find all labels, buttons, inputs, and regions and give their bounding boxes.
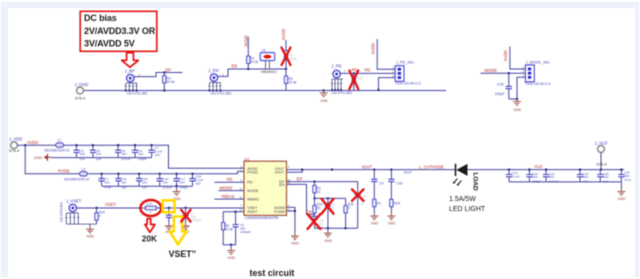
wire top ground rail <box>84 90 447 92</box>
connector J_VLD <box>595 141 608 171</box>
ground (VLD bank) <box>617 189 626 201</box>
svg-text:PD: PD <box>352 67 358 72</box>
wire AVDD to J_PD_SEL pin1 <box>377 39 395 69</box>
svg-text:100pF: 100pF <box>495 92 506 96</box>
svg-text:R30: R30 <box>146 202 152 206</box>
inductor L2 <box>64 167 89 181</box>
svg-text:16V: 16V <box>121 181 127 185</box>
resistor R25 <box>390 199 400 213</box>
svg-text:AVDD: AVDD <box>371 43 376 54</box>
capacitor C4 <box>371 170 383 200</box>
svg-text:R25: R25 <box>394 202 400 206</box>
svg-text:VSET’’: VSET’’ <box>169 249 197 259</box>
node VSET/C1b junction <box>168 207 170 209</box>
capacitor C5 <box>73 144 86 161</box>
svg-text:TSW-103-06-G-S: TSW-103-06-G-S <box>525 82 551 86</box>
capacitor C34 (not fitted) <box>355 190 367 228</box>
node gnd junction <box>516 98 518 100</box>
svg-text:GND: GND <box>34 156 43 160</box>
resistor R2 (not fitted) <box>284 40 297 69</box>
svg-text:GND: GND <box>388 222 396 226</box>
wire MODE net <box>481 72 526 74</box>
svg-text:MI1206K310R-10: MI1206K310R-10 <box>45 148 70 152</box>
svg-text:16V: 16V <box>80 152 86 156</box>
svg-text:uF: uF <box>360 201 364 205</box>
svg-text:2V/AVDD3.3V OR: 2V/AVDD3.3V OR <box>84 26 156 36</box>
capacitor C17 <box>174 173 189 190</box>
resistor R1 <box>373 199 382 213</box>
svg-text:GND: GND <box>320 99 328 103</box>
ground (C4/R1) <box>370 213 379 225</box>
svg-text:20K: 20K <box>142 234 157 244</box>
svg-text:20.0k: 20.0k <box>250 60 258 64</box>
resistor R30 (series, in red circle) <box>145 202 156 215</box>
capacitor C25 (not fitted) <box>311 215 324 230</box>
capacitor C23 (not fitted) <box>325 198 336 228</box>
svg-text:16V: 16V <box>179 181 185 185</box>
capacitor C18 <box>157 173 173 190</box>
capacitor C13 <box>506 168 520 181</box>
svg-text:RBIAS: RBIAS <box>247 198 259 202</box>
svg-text:GND: GND <box>324 239 332 243</box>
svg-text:AVDD: AVDD <box>243 35 248 46</box>
LED LOAD <box>453 164 479 191</box>
power port GND (left arrow) <box>34 154 51 161</box>
annotation yellow square <box>163 200 175 212</box>
svg-text:AVDD: AVDD <box>27 140 38 145</box>
svg-text:VLD: VLD <box>534 164 542 169</box>
connector J_PD <box>331 63 352 94</box>
svg-text:GND: GND <box>227 256 235 260</box>
connector J1 HB3902U <box>260 47 277 73</box>
node EP junction <box>163 71 165 73</box>
svg-text:IOUT: IOUT <box>275 171 285 175</box>
node C23 junction <box>327 197 329 199</box>
annotation X over C23 <box>322 199 334 214</box>
wire AVDD rail <box>17 145 244 168</box>
annotation yellow arrow (VSET) <box>170 217 187 245</box>
resistor R3 <box>247 37 259 69</box>
svg-text:16V: 16V <box>121 152 127 156</box>
svg-text:GND: GND <box>86 235 94 239</box>
svg-text:GND: GND <box>291 241 299 245</box>
svg-text:J_VDD: J_VDD <box>9 137 22 142</box>
wire AVDD bank ground bus <box>51 157 152 159</box>
capacitor C1b (to gnd, under yellow box) <box>165 208 173 234</box>
svg-text:20.0k: 20.0k <box>167 80 175 84</box>
node RSET junction <box>234 211 236 213</box>
wire J_MODE_SEL pin3 to gnd <box>509 77 526 99</box>
wire VSET net <box>77 207 245 209</box>
svg-text:10: 10 <box>317 190 321 194</box>
svg-text:0: 0 <box>99 214 101 218</box>
svg-text:20.0k: 20.0k <box>289 57 297 61</box>
capacitor C32 <box>388 170 402 200</box>
node VSET/R24 junction <box>95 207 97 209</box>
wire PD stub <box>214 181 244 183</box>
node link junction <box>313 197 315 199</box>
wire MODE stub <box>218 190 244 192</box>
svg-text:MI1206K310R-10: MI1206K310R-10 <box>64 178 89 182</box>
wire EN net to C25 <box>287 184 315 214</box>
svg-text:575-4: 575-4 <box>75 96 86 101</box>
node IOUT b <box>331 168 333 170</box>
resistor R9 <box>222 222 234 231</box>
node MODE/C30 junction <box>508 72 510 74</box>
svg-text:EN: EN <box>279 183 285 187</box>
node AGND/PGND junction <box>294 210 296 212</box>
svg-text:142-0701-851: 142-0701-851 <box>60 202 64 222</box>
resistor R10 <box>313 198 323 214</box>
svg-text:RBIAS: RBIAS <box>222 194 235 199</box>
svg-text:EP: EP <box>297 177 303 182</box>
svg-text:16V: 16V <box>163 181 169 185</box>
svg-text:10V: 10V <box>155 153 161 157</box>
wire PVDD bank ground bus <box>102 185 193 187</box>
resistor R24 <box>95 208 105 224</box>
svg-text:C30: C30 <box>497 83 504 87</box>
connector J_VDD <box>9 137 22 154</box>
capacitor C19 <box>189 173 203 186</box>
wire EP net from J_BP <box>134 73 183 77</box>
capacitor C15 <box>597 170 609 184</box>
wire EN net <box>218 69 287 76</box>
svg-text:20.0k: 20.0k <box>225 228 233 232</box>
node EP/R7 junction <box>313 180 315 182</box>
svg-text:IOUT: IOUT <box>362 164 372 169</box>
svg-text:RSET: RSET <box>247 210 258 214</box>
svg-text:16V: 16V <box>142 181 148 185</box>
svg-text:0: 0 <box>348 206 350 210</box>
svg-text:GND: GND <box>513 108 521 112</box>
node R4 rail <box>163 89 165 91</box>
svg-text:PVDD: PVDD <box>247 170 258 174</box>
wire PVDD branch <box>25 145 244 174</box>
connector J_VSET <box>60 199 97 225</box>
annotation red arrow (DC bias) <box>122 53 139 67</box>
header J_MODE_SEL <box>522 60 551 86</box>
svg-text:LOAD: LOAD <box>472 173 479 191</box>
connector J_BP <box>125 69 148 96</box>
ground (PVDD bank) <box>173 185 182 201</box>
capacitor C21 <box>115 173 127 190</box>
svg-text:EN: EN <box>232 64 238 69</box>
resistor R4 <box>163 73 175 91</box>
resistor R5 <box>284 69 297 91</box>
inductor L1 <box>45 139 70 153</box>
wire AVDD to J_MODE_SEL pin1 <box>510 47 526 70</box>
capacitor C12 <box>543 168 559 183</box>
svg-text:J_VLD: J_VLD <box>595 141 608 146</box>
wire RBIAS stub <box>214 198 244 200</box>
svg-text:L1: L1 <box>58 139 62 143</box>
wire J_PD_SEL pin3 to rail <box>379 78 396 90</box>
ground (IC right bus) <box>324 228 333 243</box>
resistor R7 <box>313 182 321 199</box>
svg-text:J_VSET: J_VSET <box>66 199 82 204</box>
node EN/R3 junction <box>247 68 249 70</box>
svg-text:GND: GND <box>371 222 379 226</box>
wire R7/C23/R22 link <box>315 197 346 199</box>
node VSET/C3 junction <box>184 207 186 209</box>
node IOUT a <box>301 168 303 170</box>
svg-text:10V: 10V <box>195 182 201 186</box>
svg-text:AVDD: AVDD <box>503 50 508 61</box>
annotation X over R23 <box>349 71 358 90</box>
svg-text:MODE: MODE <box>247 189 259 193</box>
svg-text:16V: 16V <box>96 152 102 156</box>
svg-text:20.0k: 20.0k <box>288 81 296 85</box>
capacitor C14 <box>577 168 589 183</box>
svg-text:EP: EP <box>166 67 172 72</box>
annotation red box DC bias <box>80 11 157 51</box>
capacitor C8 <box>115 144 131 161</box>
wire IOUT pin2 link <box>287 170 303 173</box>
annotation X over C25 <box>308 214 321 229</box>
node PVDD branch <box>24 144 26 146</box>
ground (top rail) <box>320 89 329 103</box>
ground (C32/R25) <box>387 213 396 225</box>
svg-text:10: 10 <box>317 206 321 210</box>
svg-text:16V: 16V <box>138 152 144 156</box>
node C4 junction <box>373 168 375 170</box>
svg-text:L2: L2 <box>82 167 86 171</box>
wire IOUT net <box>287 169 625 171</box>
node bus junctions <box>327 227 329 229</box>
annotation red arrow (20K) <box>145 219 155 233</box>
ground (C30) <box>513 99 522 112</box>
capacitor C9 <box>132 144 147 161</box>
svg-text:0.1uF: 0.1uF <box>512 175 520 179</box>
wire AGND/PGND to gnd <box>287 207 295 233</box>
svg-text:PGND: PGND <box>274 210 285 214</box>
capacitor C10 <box>618 168 631 181</box>
wire EP net <box>287 182 358 190</box>
node PD/R23 junction <box>353 72 355 74</box>
ground (J_VSET) <box>86 224 95 239</box>
svg-text:PD: PD <box>365 67 371 72</box>
capacitor C7 <box>149 144 163 158</box>
svg-text:U1: U1 <box>245 156 251 161</box>
capacitor C2 <box>233 223 251 234</box>
svg-text:LED LIGHT: LED LIGHT <box>449 206 486 213</box>
svg-text:142-0701-851: 142-0701-851 <box>331 91 352 95</box>
connector J_EN <box>208 68 231 95</box>
capacitor C30 <box>495 73 512 99</box>
svg-text:J_MODE_SEL: J_MODE_SEL <box>526 60 551 64</box>
IC U1 LED driver <box>239 156 290 220</box>
ground (AGND/PGND) <box>291 233 300 245</box>
svg-text:TSW-103-06-G-S: TSW-103-06-G-S <box>395 82 421 86</box>
svg-text:PD: PD <box>227 177 233 182</box>
svg-text:J_BP: J_BP <box>125 69 135 74</box>
svg-text:C4: C4 <box>379 182 383 186</box>
svg-text:PVDD: PVDD <box>58 169 70 174</box>
capacitor C6 <box>90 144 103 161</box>
svg-text:test circuit: test circuit <box>250 268 295 278</box>
wire bottom bus (IC right) <box>315 227 358 229</box>
svg-text:1.5A/5W: 1.5A/5W <box>449 196 476 203</box>
svg-text:C32: C32 <box>396 182 402 186</box>
svg-text:16V: 16V <box>104 181 110 185</box>
svg-text:LM3630A30B/NOPB: LM3630A30B/NOPB <box>245 216 279 220</box>
svg-text:PD: PD <box>247 181 253 185</box>
svg-text:575-4: 575-4 <box>9 148 20 153</box>
svg-text:GND: GND <box>618 197 626 201</box>
resistor R22 <box>344 198 354 228</box>
resistor R23 (not fitted) <box>352 73 362 90</box>
annotation X over R2 <box>282 48 291 66</box>
node C32 junction <box>390 168 392 170</box>
capacitor C16 <box>526 168 541 183</box>
capacitor C3 (not fitted) <box>182 208 202 234</box>
svg-text:DC bias: DC bias <box>84 13 117 23</box>
annotation red circle over R30 <box>140 200 161 216</box>
annotation X over C34 <box>352 189 364 200</box>
svg-text:MODE: MODE <box>485 68 498 73</box>
svg-text:J_PD: J_PD <box>331 63 341 68</box>
svg-text:3V/AVDD 5V: 3V/AVDD 5V <box>84 38 135 48</box>
svg-text:J_EN: J_EN <box>208 68 218 73</box>
connector J_GND <box>75 82 89 101</box>
wire PD net <box>340 72 395 74</box>
capacitor C20 <box>136 173 148 190</box>
svg-text:575-4: 575-4 <box>597 161 608 166</box>
header J_PD_SEL <box>392 61 421 86</box>
svg-text:47uF: 47uF <box>624 178 631 182</box>
svg-text:1000pF: 1000pF <box>191 218 202 222</box>
svg-text:142-0701-851: 142-0701-851 <box>210 91 231 95</box>
svg-text:L_CATHODE: L_CATHODE <box>419 165 444 170</box>
node EN/R2/R5 junction <box>285 68 287 70</box>
wire RSET loop <box>223 212 244 245</box>
svg-text:0: 0 <box>150 211 152 215</box>
svg-text:1000pF: 1000pF <box>240 230 251 234</box>
svg-text:MODE: MODE <box>220 186 233 191</box>
svg-text:VSET: VSET <box>105 202 116 207</box>
svg-text:HB3902U: HB3902U <box>261 70 277 74</box>
svg-text:142-0701-851: 142-0701-851 <box>127 91 148 95</box>
svg-text:R1: R1 <box>377 202 381 206</box>
svg-text:J_GND: J_GND <box>75 82 89 87</box>
annotation X over C3 <box>181 210 190 222</box>
svg-text:AVDD: AVDD <box>281 29 286 40</box>
svg-text:J_PD_SEL: J_PD_SEL <box>396 61 415 65</box>
svg-text:IOUT: IOUT <box>404 170 412 174</box>
node pin3 rail <box>377 89 379 91</box>
capacitor C1 <box>99 173 112 190</box>
wire VLD ground bus <box>509 182 621 189</box>
ground (R9/C2) <box>227 244 236 261</box>
